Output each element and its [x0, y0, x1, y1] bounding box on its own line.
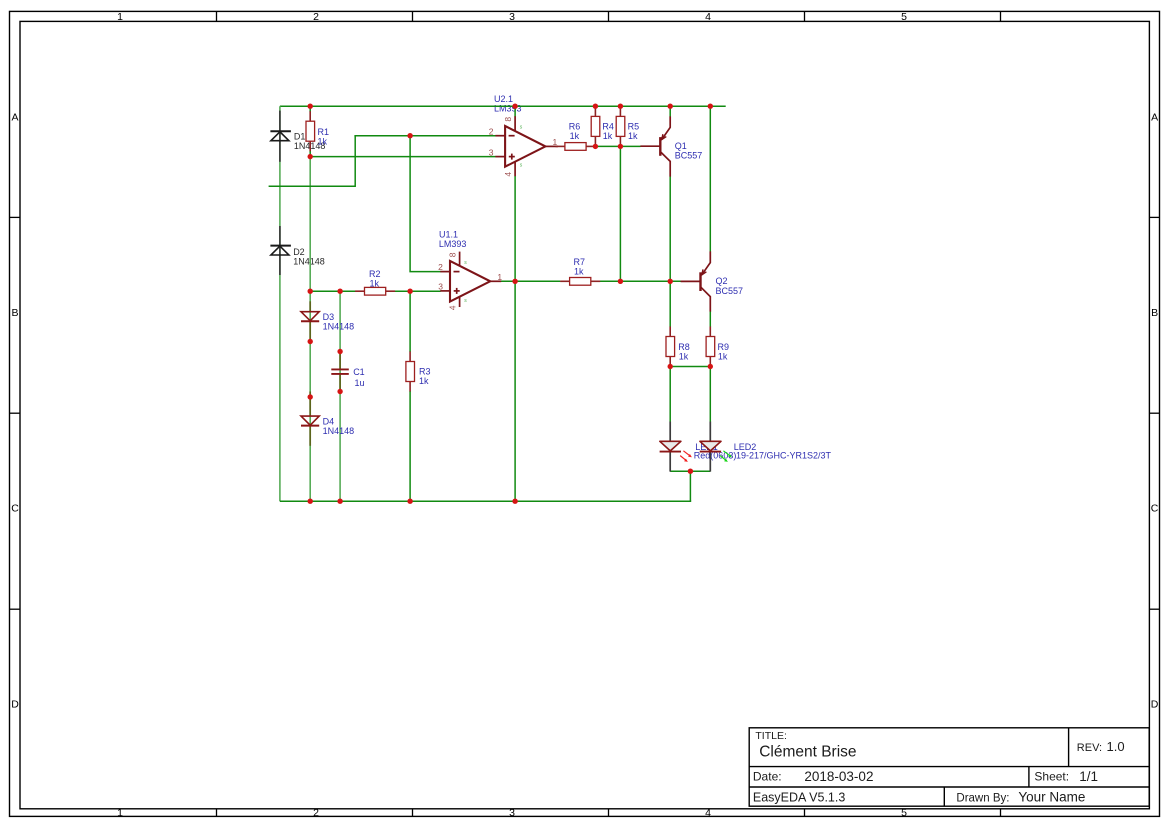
node D3 bottom	[308, 339, 313, 344]
node rail-x310	[308, 499, 313, 504]
wire LED bottoms link	[670, 470, 710, 472]
LED2 top lead	[709, 422, 711, 442]
diode D3 top lead overlap	[309, 301, 311, 311]
capacitor C1	[331, 369, 349, 374]
svg-text:1k: 1k	[574, 267, 584, 277]
svg-text:2: 2	[313, 11, 319, 23]
wire R8 R9 bottom link	[670, 366, 710, 368]
svg-text:R6: R6	[569, 121, 581, 131]
node R8 bottom	[668, 364, 673, 369]
svg-text:1k: 1k	[628, 131, 638, 141]
svg-text:Clément Brise: Clément Brise	[759, 744, 856, 761]
svg-text:3: 3	[509, 11, 515, 23]
resistor R8	[666, 327, 675, 367]
node LED link	[688, 469, 693, 474]
svg-text:1N4148: 1N4148	[323, 321, 355, 331]
frame row letters left	[11, 112, 19, 711]
frame column numbers bottom	[117, 807, 907, 819]
wire Q1 collector down to R7 net	[669, 176, 671, 281]
op-amp U1.1 pin numbers	[438, 252, 502, 310]
wire LED2 top feed	[709, 367, 711, 423]
node R2-R3	[407, 289, 412, 294]
svg-text:R1: R1	[318, 127, 330, 137]
resistor R6	[556, 143, 596, 151]
node R6-R4	[593, 144, 598, 149]
LED1 top lead	[669, 422, 671, 442]
frame column numbers top	[117, 11, 907, 23]
svg-text:3: 3	[438, 282, 443, 292]
op-amp U1.1 tiny pin marks	[464, 260, 467, 304]
LED2 bottom lead	[709, 452, 711, 472]
op-amp U1.1	[440, 252, 501, 307]
svg-text:Sheet:: Sheet:	[1034, 770, 1069, 784]
diode D4 label	[323, 417, 355, 436]
resistor R3	[406, 352, 415, 392]
node C1 top	[337, 349, 342, 354]
wire U2 pin2 net horizontal	[354, 135, 495, 137]
node rail-Q1	[668, 104, 673, 109]
svg-text:1/1: 1/1	[1079, 769, 1098, 784]
resistor R4 label	[602, 122, 614, 142]
svg-text:1k: 1k	[718, 351, 728, 361]
wire Q1 emitter feed	[669, 105, 671, 116]
svg-text:3: 3	[489, 147, 494, 157]
node R7-x620	[618, 279, 623, 284]
wire LED junction drop	[689, 471, 691, 501]
title block	[749, 728, 1149, 806]
svg-text:C: C	[1151, 503, 1159, 515]
node rail-R5	[618, 104, 623, 109]
diode D1 label	[294, 132, 326, 151]
node C1 bottom	[337, 389, 342, 394]
node R7-x670	[668, 279, 673, 284]
svg-text:A: A	[1151, 112, 1158, 124]
svg-text:1: 1	[117, 807, 123, 819]
svg-text:Date:: Date:	[753, 770, 782, 784]
svg-text:Q2: Q2	[716, 276, 728, 286]
svg-text:1N4148: 1N4148	[323, 426, 355, 436]
node rail-x340	[337, 499, 342, 504]
capacitor C1 top lead overlap	[339, 352, 341, 369]
svg-text:1k: 1k	[570, 131, 580, 141]
svg-text:Q1: Q1	[675, 141, 687, 151]
svg-text:4: 4	[447, 305, 457, 310]
wire R7 right segment to Q2 base	[600, 280, 681, 282]
wire left column through D1 D2	[279, 106, 281, 501]
resistor R7	[560, 278, 600, 286]
wire R2 right to U1 pin3	[395, 290, 441, 292]
wire column x=620 R5 to R7 net	[619, 146, 621, 281]
wire column x=340 through C1	[339, 291, 341, 501]
wire VCC top rail	[280, 105, 726, 107]
wire stub at y=186	[269, 185, 356, 187]
diode D3 label	[323, 312, 355, 331]
svg-text:A: A	[11, 112, 18, 124]
svg-text:4: 4	[705, 807, 711, 819]
diode D4	[301, 416, 319, 426]
node R6-R5	[618, 144, 623, 149]
svg-text:C: C	[11, 503, 19, 515]
resistor R5	[616, 106, 625, 146]
op-amp U2.1 tiny pin marks	[520, 125, 523, 169]
svg-text:2: 2	[489, 127, 494, 137]
wire ground bottom rail	[280, 500, 691, 502]
node C1 branch	[337, 289, 342, 294]
wire x=410 from pin2 net down to U1 pin2	[410, 136, 441, 272]
frame row letters right	[1151, 112, 1159, 711]
LED1 emission arrows	[680, 451, 692, 462]
svg-text:R7: R7	[574, 257, 586, 267]
svg-text:REV:: REV:	[1077, 742, 1102, 754]
svg-text:19-217/GHC-YR1S2/3T: 19-217/GHC-YR1S2/3T	[736, 450, 832, 460]
svg-text:3: 3	[509, 807, 515, 819]
svg-text:C1: C1	[353, 367, 365, 377]
resistor R9 label	[718, 342, 730, 362]
wire R3 bottom to rail	[409, 391, 411, 501]
svg-text:2: 2	[438, 262, 443, 272]
svg-text:8: 8	[447, 252, 457, 257]
LED1 bottom lead	[669, 452, 671, 472]
svg-text:U2.1: U2.1	[494, 94, 513, 104]
wire Q2 collector to R9	[709, 311, 711, 327]
svg-text:D: D	[11, 699, 19, 711]
node U1 out x515	[512, 279, 517, 284]
resistor R9	[706, 327, 715, 367]
svg-text:B: B	[11, 307, 18, 319]
op-amp U2.1	[495, 116, 558, 176]
wire column x=310 through D3 D4	[309, 157, 311, 502]
svg-text:R9: R9	[718, 342, 730, 352]
diode D2	[270, 246, 291, 255]
wire vertical jog x=355	[354, 136, 356, 187]
svg-text:TITLE:: TITLE:	[755, 730, 787, 742]
transistor Q2	[681, 251, 711, 311]
resistor R4	[591, 106, 600, 146]
resistor R8 label	[678, 342, 690, 362]
wire U2 pin4 down column x=515	[514, 176, 516, 501]
node rail-R1	[308, 104, 313, 109]
wire R2 left segment	[310, 290, 365, 292]
node rail-U2pin8	[512, 104, 517, 109]
wire R1 top pin link	[309, 105, 311, 112]
resistor R7 label	[574, 257, 586, 277]
capacitor C1 bottom lead overlap	[339, 375, 341, 392]
diode D1	[270, 131, 291, 140]
node rail-R4	[593, 104, 598, 109]
svg-text:5: 5	[901, 11, 907, 23]
diode D2 label	[293, 247, 325, 266]
LED1	[660, 441, 681, 451]
LED2 emission arrows	[720, 451, 732, 462]
wire U2 pin3 net horizontal	[310, 156, 495, 158]
resistor R3 label	[419, 367, 431, 386]
node R9 bottom	[708, 364, 713, 369]
SCHEMATIC	[269, 94, 832, 504]
svg-text:2: 2	[313, 807, 319, 819]
transistor Q1 label	[675, 141, 703, 161]
junction dots	[308, 104, 714, 504]
title block text TITLE	[753, 730, 1125, 805]
svg-text:R5: R5	[628, 122, 640, 132]
svg-text:Drawn By:: Drawn By:	[956, 792, 1009, 804]
svg-text:2018-03-02: 2018-03-02	[804, 769, 873, 784]
wire x=410 down to R3	[409, 291, 411, 352]
svg-text:EasyEDA V5.1.3: EasyEDA V5.1.3	[753, 791, 845, 805]
svg-text:R2: R2	[369, 269, 381, 279]
resistor R1	[306, 111, 315, 151]
diode D1 lead	[279, 111, 281, 162]
frame column ticks top	[217, 11, 1001, 21]
transistor Q2 label	[716, 276, 744, 296]
resistor R1 label	[318, 127, 330, 147]
resistor R6 label	[569, 121, 581, 141]
op-amp U1.1 label	[439, 229, 467, 248]
frame row ticks right	[1149, 217, 1159, 609]
svg-text:1u: 1u	[355, 378, 365, 388]
node rail-R3	[407, 499, 412, 504]
wire Q2 emitter feed column x=710	[709, 105, 711, 251]
wire U1 output to R7	[501, 280, 561, 282]
diode D4 top lead overlap	[309, 392, 311, 416]
svg-text:B: B	[1151, 307, 1158, 319]
svg-text:1N4148: 1N4148	[293, 257, 325, 267]
node R1 bottom	[308, 154, 313, 159]
diode D3	[301, 312, 319, 322]
wire U2 pin8 feed	[514, 105, 516, 116]
transistor Q1	[640, 116, 670, 176]
resistor R5 label	[628, 122, 640, 142]
svg-text:5: 5	[901, 807, 907, 819]
node rail-x515	[512, 499, 517, 504]
op-amp U2.1 pin numbers	[489, 117, 558, 177]
diode D3 bottom lead overlap	[309, 321, 311, 341]
svg-text:8: 8	[503, 117, 513, 122]
wire R8 top feed	[669, 281, 671, 327]
wire LED1 top feed	[669, 367, 671, 423]
diode D2 lead	[279, 226, 281, 275]
svg-text:R8: R8	[678, 342, 690, 352]
svg-text:1k: 1k	[603, 131, 613, 141]
op-amp U2.1 label	[494, 94, 522, 114]
node R2 left	[308, 289, 313, 294]
svg-text:1: 1	[497, 272, 502, 282]
LED1 label	[694, 442, 737, 460]
svg-text:LM393: LM393	[439, 239, 467, 249]
svg-text:4: 4	[705, 11, 711, 23]
LED2	[700, 441, 721, 451]
node D4 top	[308, 394, 313, 399]
node rail-Q2	[708, 104, 713, 109]
svg-text:D: D	[1151, 699, 1159, 711]
resistor R2 label	[369, 269, 381, 289]
svg-text:1k: 1k	[318, 137, 328, 147]
svg-text:1k: 1k	[419, 376, 429, 386]
LED2 value label	[734, 442, 832, 460]
svg-text:4: 4	[503, 172, 513, 177]
svg-text:Your Name: Your Name	[1018, 790, 1085, 805]
node pin2 net	[407, 133, 412, 138]
wire R6 output segment y=146.4	[595, 145, 640, 147]
svg-text:BC557: BC557	[675, 151, 703, 161]
frame row ticks left	[10, 217, 21, 609]
svg-text:1k: 1k	[370, 278, 380, 288]
wire R1 bottom pin link	[309, 151, 311, 158]
frame column ticks bottom	[217, 809, 1001, 817]
resistor R2	[355, 287, 395, 295]
diode D4 bottom lead overlap	[309, 426, 311, 446]
svg-text:1k: 1k	[679, 351, 689, 361]
svg-text:1.0: 1.0	[1107, 739, 1125, 754]
svg-text:R4: R4	[602, 122, 614, 132]
capacitor C1 label	[353, 367, 365, 388]
svg-text:1: 1	[117, 11, 123, 23]
svg-text:BC557: BC557	[716, 286, 744, 296]
